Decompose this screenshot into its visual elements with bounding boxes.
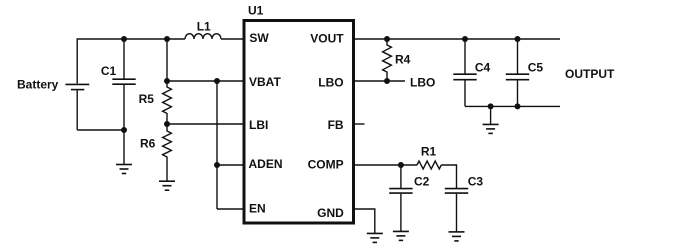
resistor R4 (383, 39, 392, 81)
wire L1 to SW pin (221, 38, 244, 40)
node output ground junction (488, 103, 494, 109)
svg-text:C5: C5 (528, 60, 544, 74)
svg-text:LBO: LBO (410, 75, 435, 89)
inductor L1 (185, 34, 221, 39)
node C5 bottom (515, 103, 521, 109)
svg-text:FB: FB (328, 118, 344, 132)
capacitor C4 (453, 39, 476, 106)
wire R1 to C3 (441, 165, 456, 188)
svg-text:LBO: LBO (318, 76, 343, 90)
ground below C2 (393, 231, 409, 240)
node C4 top (462, 36, 468, 42)
svg-text:VBAT: VBAT (249, 75, 281, 89)
capacitor C5 (506, 39, 529, 106)
svg-text:U1: U1 (248, 4, 264, 18)
wire vertical branch VBAT to EN (216, 81, 218, 209)
svg-text:GND: GND (317, 206, 344, 220)
svg-text:VOUT: VOUT (310, 32, 344, 46)
wire rail to VBAT row (166, 39, 168, 81)
wire LBO stub (354, 80, 405, 82)
node R5 R6 junction (164, 121, 170, 127)
svg-text:R1: R1 (421, 144, 437, 158)
resistor R5 (163, 81, 172, 124)
svg-text:SW: SW (249, 31, 269, 45)
ground below GND pin (367, 233, 383, 242)
node ADEN junction (214, 162, 220, 168)
resistor R1 (417, 161, 441, 169)
svg-text:Battery: Battery (17, 78, 59, 92)
wire battery top to L1 (77, 39, 185, 84)
wire VOUT rail (354, 38, 560, 40)
resistor R6 (163, 124, 172, 181)
node VBAT junction (164, 78, 170, 84)
wire LBI row (167, 123, 244, 125)
op-amp U1 box (244, 21, 354, 224)
wire VBAT row (167, 80, 244, 82)
wire output bottom rail (465, 105, 560, 107)
node LBO junction (384, 78, 390, 84)
ground below C1 (116, 130, 132, 174)
svg-text:OUTPUT: OUTPUT (565, 67, 615, 81)
svg-text:C4: C4 (475, 60, 491, 74)
ground below R6 (159, 181, 175, 190)
capacitor C1 (112, 39, 135, 130)
wire COMP row (354, 164, 417, 166)
battery B1 (65, 84, 89, 130)
svg-text:C1: C1 (101, 64, 117, 78)
wire ADEN row (217, 164, 244, 166)
node C5 top (515, 36, 521, 42)
node C1 top (121, 36, 127, 42)
capacitor C2 (389, 165, 412, 231)
svg-text:EN: EN (249, 201, 266, 215)
node COMP junction (398, 162, 404, 168)
node R4 top (384, 36, 390, 42)
svg-text:C3: C3 (468, 174, 484, 188)
svg-text:COMP: COMP (308, 158, 344, 172)
node R5 top on rail (164, 36, 170, 42)
ground below C3 (449, 232, 465, 241)
wire FB stub (354, 123, 365, 125)
svg-text:LBI: LBI (249, 118, 268, 132)
svg-text:R6: R6 (140, 137, 156, 151)
svg-text:L1: L1 (197, 19, 211, 33)
wire GND pin to ground (354, 209, 375, 233)
node ADEN branch top (214, 78, 220, 84)
ground below output rail (483, 106, 499, 133)
svg-text:C2: C2 (414, 174, 430, 188)
svg-text:ADEN: ADEN (249, 157, 283, 171)
wire battery bottom to C1 bottom (77, 129, 124, 131)
capacitor C3 (445, 189, 468, 232)
svg-text:R4: R4 (395, 52, 411, 66)
node C1 bottom junction (121, 127, 127, 133)
wire EN row (217, 208, 244, 210)
svg-text:R5: R5 (139, 92, 155, 106)
